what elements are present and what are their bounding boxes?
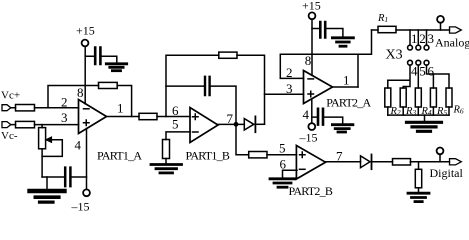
svg-text:R5: R5 — [436, 106, 447, 117]
svg-text:R4: R4 — [421, 106, 432, 117]
svg-text:3: 3 — [61, 110, 68, 125]
svg-text:6: 6 — [172, 103, 179, 118]
svg-text:–15: –15 — [71, 200, 90, 214]
svg-text:X3: X3 — [386, 48, 403, 63]
svg-text:R6: R6 — [453, 105, 464, 116]
svg-text:8: 8 — [77, 85, 84, 100]
svg-text:5: 5 — [419, 64, 426, 79]
svg-text:5: 5 — [172, 117, 179, 132]
svg-text:1: 1 — [343, 73, 350, 88]
svg-text:PART1_B: PART1_B — [186, 148, 230, 162]
svg-text:4: 4 — [411, 64, 418, 79]
svg-text:PART2_A: PART2_A — [326, 95, 371, 109]
svg-text:7: 7 — [336, 149, 343, 164]
svg-text:R1: R1 — [377, 13, 388, 24]
svg-text:Analog: Analog — [435, 36, 469, 50]
svg-text:4: 4 — [75, 138, 82, 153]
svg-text:6: 6 — [428, 64, 435, 79]
svg-text:+15: +15 — [76, 23, 95, 37]
svg-text:3: 3 — [428, 31, 435, 46]
svg-text:PART2_B: PART2_B — [289, 184, 333, 198]
svg-text:3: 3 — [286, 81, 293, 96]
svg-text:6: 6 — [280, 157, 287, 172]
svg-text:R2: R2 — [390, 106, 401, 117]
svg-text:PART1_A: PART1_A — [97, 148, 142, 162]
svg-text:Digital: Digital — [430, 166, 464, 180]
svg-text:2: 2 — [61, 95, 68, 110]
svg-text:2: 2 — [286, 65, 293, 80]
svg-text:8: 8 — [305, 53, 312, 68]
svg-text:R3: R3 — [405, 106, 416, 117]
svg-text:7: 7 — [227, 111, 234, 126]
svg-text:–15: –15 — [299, 131, 318, 145]
svg-text:1: 1 — [411, 31, 418, 46]
svg-text:5: 5 — [279, 140, 286, 155]
svg-text:Vc-: Vc- — [1, 130, 18, 142]
svg-text:+15: +15 — [302, 0, 321, 13]
svg-text:2: 2 — [419, 31, 426, 46]
svg-text:1: 1 — [117, 101, 124, 116]
svg-text:Vc+: Vc+ — [1, 90, 20, 102]
svg-text:4: 4 — [303, 107, 310, 122]
